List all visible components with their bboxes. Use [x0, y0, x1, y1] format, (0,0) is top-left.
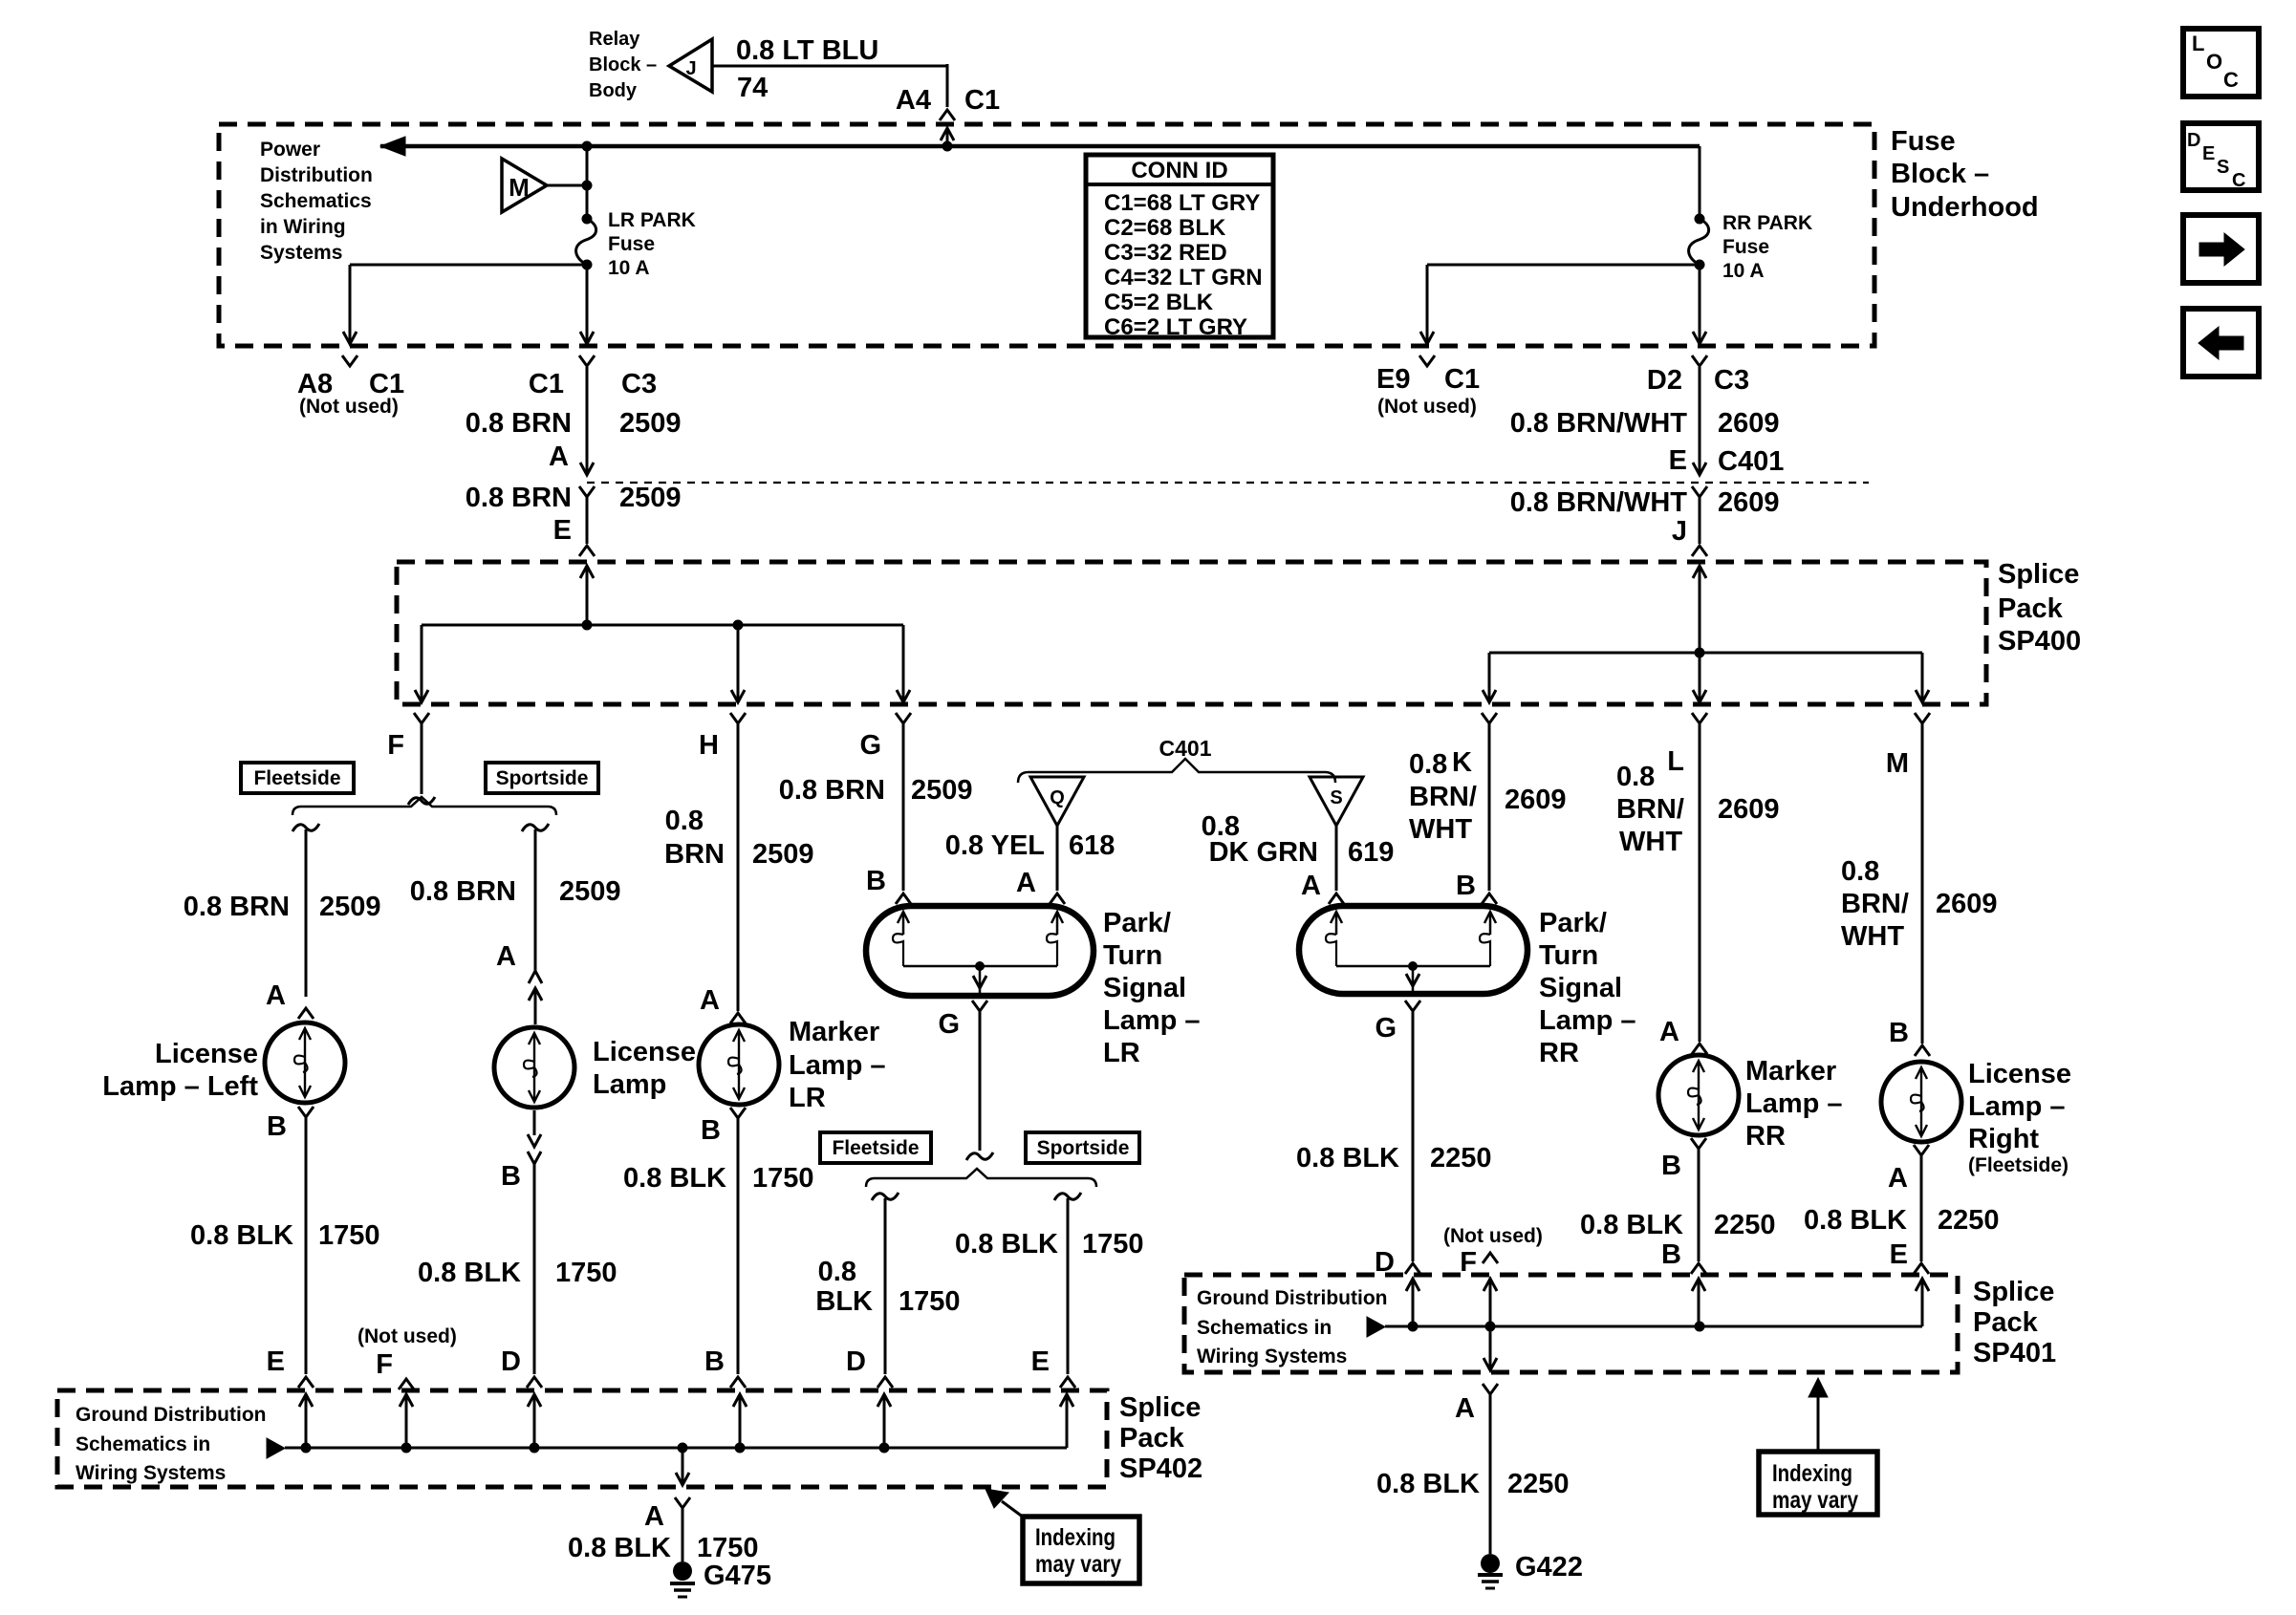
lamp: Park/Turn Signal Lamp - LR (oval): [866, 906, 1094, 996]
wire: branch to E9 (not used): [1427, 264, 1700, 267]
wire: RR PARK fuse output to D2/C3 exit: [1699, 265, 1701, 342]
svg-text:G: G: [1375, 1013, 1397, 1044]
svg-text:SP401: SP401: [1973, 1338, 2056, 1368]
Fuse Block - Underhood dashed box: [219, 124, 1874, 346]
svg-text:2250: 2250: [1507, 1469, 1570, 1499]
svg-text:RR PARK: RR PARK: [1722, 212, 1812, 234]
svg-text:C401: C401: [1159, 736, 1212, 761]
svg-text:0.8 LT BLU: 0.8 LT BLU: [736, 35, 878, 66]
svg-text:BLK: BLK: [815, 1286, 873, 1317]
svg-text:2609: 2609: [1505, 785, 1567, 815]
svg-text:618: 618: [1069, 830, 1115, 861]
svg-text:A: A: [1301, 871, 1321, 901]
svg-text:CONN ID: CONN ID: [1131, 158, 1227, 183]
svg-text:E: E: [267, 1346, 285, 1377]
connector A8 C1 (Not used): [342, 355, 357, 366]
svg-text:Lamp: Lamp: [593, 1069, 666, 1100]
svg-text:E: E: [1669, 445, 1687, 476]
lamp: License Lamp - Right (Fleetside): [1881, 1062, 1961, 1142]
connector E9 C1 (Not used): [1419, 355, 1435, 366]
svg-text:Fuse: Fuse: [608, 233, 655, 255]
svg-text:2509: 2509: [911, 775, 973, 806]
svg-text:may vary: may vary: [1772, 1487, 1858, 1514]
wire: 0.8 BRN/WHT 2609 from D2/C3 to C401: [1692, 355, 1707, 366]
svg-text:Fuse: Fuse: [1891, 126, 1956, 157]
wire: branch to A8 (not used): [350, 264, 587, 267]
wire: SP401 F riser (not used) and ground tap: [1489, 1281, 1492, 1326]
svg-text:0.8 BLK: 0.8 BLK: [568, 1533, 671, 1563]
svg-text:Relay: Relay: [589, 29, 640, 50]
svg-text:(Fleetside): (Fleetside): [1968, 1154, 2069, 1176]
wire: LR PARK fuse output to C1/C3 exit: [586, 265, 589, 342]
svg-text:H: H: [699, 730, 719, 761]
svg-text:G422: G422: [1515, 1552, 1583, 1583]
svg-text:Sportside: Sportside: [1037, 1137, 1130, 1159]
svg-text:Pack: Pack: [1119, 1423, 1185, 1453]
svg-text:0.8: 0.8: [1616, 762, 1655, 792]
svg-text:F: F: [1460, 1247, 1477, 1278]
wire: SP400 right internal bus: [1693, 566, 1706, 578]
svg-text:G: G: [938, 1009, 960, 1040]
svg-text:B: B: [1661, 1151, 1681, 1181]
svg-text:1750: 1750: [318, 1220, 380, 1251]
wire: Park/Turn LR pin G down: [972, 1001, 987, 1011]
wire: H branch 0.8 BRN 2509 to Marker Lamp LR: [737, 723, 740, 1011]
connector C401 pass-through (right): [1692, 486, 1707, 497]
connector G out of SP400: [896, 713, 911, 723]
svg-text:0.8 BLK: 0.8 BLK: [1580, 1210, 1683, 1240]
wire: Park/Turn RR pin G down to SP401 D: [1405, 1001, 1420, 1011]
svg-text:Park/: Park/: [1103, 908, 1171, 938]
connector J triangle: Relay Block - Body: [669, 39, 712, 92]
lamp: License Lamp - Left: [265, 1023, 345, 1103]
svg-text:C: C: [2232, 170, 2245, 191]
wire: sportside license lamp B to SP402 D: [533, 1164, 536, 1374]
svg-text:A: A: [549, 441, 569, 472]
svg-text:DK GRN: DK GRN: [1209, 837, 1318, 868]
connector C401 brace: [1018, 759, 1335, 783]
wire: SP401 internal ground bus: [1385, 1325, 1922, 1328]
legend box DESC: [2183, 123, 2259, 190]
svg-text:Q: Q: [1050, 787, 1065, 808]
svg-text:C1: C1: [1444, 364, 1480, 395]
wire: main feed bus inside fuse block: [380, 144, 1700, 149]
svg-text:RR: RR: [1745, 1121, 1786, 1152]
svg-text:A: A: [1659, 1017, 1679, 1047]
svg-text:B: B: [1456, 871, 1476, 901]
svg-text:RR: RR: [1539, 1038, 1579, 1068]
svg-text:A: A: [644, 1501, 664, 1532]
svg-text:Right: Right: [1968, 1124, 2039, 1154]
svg-text:D: D: [846, 1346, 866, 1377]
legend box LOC: [2183, 29, 2259, 97]
wire: feed to RR PARK fuse: [1699, 146, 1701, 219]
svg-text:J: J: [1672, 516, 1687, 547]
svg-text:(Not used): (Not used): [1443, 1225, 1543, 1247]
Indexing may vary note (SP401): [1759, 1452, 1877, 1515]
svg-text:Block –: Block –: [1891, 159, 1989, 189]
svg-text:2609: 2609: [1718, 487, 1780, 518]
svg-text:0.8: 0.8: [1409, 749, 1447, 780]
svg-text:Body: Body: [589, 80, 638, 101]
wire: relay block feed 0.8 LT BLU 74: [712, 65, 947, 68]
svg-text:0.8 BRN/WHT: 0.8 BRN/WHT: [1510, 487, 1688, 518]
wire: L branch 0.8 BRN/WHT 2609 to Marker Lamp RR: [1699, 723, 1701, 1042]
svg-text:L: L: [1667, 746, 1684, 777]
svg-text:Signal: Signal: [1539, 973, 1622, 1003]
svg-text:0.8 BLK: 0.8 BLK: [1376, 1469, 1480, 1499]
wire: 0.8 BRN 2509 from C1/C3 to C401: [579, 355, 595, 366]
svg-text:B: B: [501, 1161, 521, 1192]
svg-text:WHT: WHT: [1841, 921, 1904, 952]
connector F out of SP400: [414, 713, 429, 723]
svg-text:Lamp –: Lamp –: [1103, 1005, 1201, 1036]
ground G422: [1481, 1554, 1500, 1573]
connector A below SP402: [675, 1497, 690, 1508]
svg-text:Power: Power: [260, 139, 320, 161]
ground G475: [673, 1561, 692, 1581]
wire: 0.8 BLK 1750 to G475: [682, 1508, 684, 1561]
connector C401 pass-through (left): [579, 486, 595, 497]
wire: F branch down to fleetside/sportside split: [421, 723, 423, 794]
svg-text:Block –: Block –: [589, 54, 657, 75]
wire: K branch 0.8 BRN/WHT 2609 to Park/Turn RR pin B: [1488, 723, 1491, 891]
label box Sportside (right split): [486, 763, 598, 793]
svg-text:0.8 BRN: 0.8 BRN: [184, 892, 290, 922]
svg-text:E: E: [1890, 1239, 1908, 1270]
svg-text:B: B: [267, 1111, 287, 1142]
svg-text:Distribution: Distribution: [260, 164, 373, 186]
svg-text:0.8 BLK: 0.8 BLK: [190, 1220, 293, 1251]
svg-text:C2=68 BLK: C2=68 BLK: [1104, 215, 1226, 241]
svg-text:WHT: WHT: [1619, 827, 1682, 857]
svg-text:License: License: [593, 1037, 696, 1067]
svg-text:1750: 1750: [697, 1533, 759, 1563]
svg-text:C3: C3: [1714, 365, 1749, 396]
svg-text:0.8: 0.8: [665, 806, 704, 836]
wire: 0.8 YEL 618 from Q to Park/Turn LR pin A: [1056, 826, 1059, 891]
svg-text:A: A: [1016, 868, 1036, 898]
wire: SP402 ground tap down: [682, 1448, 684, 1483]
lamp: License Lamp (Sportside): [494, 1027, 574, 1108]
svg-text:L: L: [2192, 32, 2204, 55]
connector in-line below sportside license lamp: [533, 1110, 536, 1135]
wire: fleetside ground 0.8 BLK 1750 to SP402 D: [872, 1193, 899, 1200]
svg-text:C5=2 BLK: C5=2 BLK: [1104, 290, 1214, 315]
svg-text:10 A: 10 A: [608, 257, 650, 279]
Splice Pack SP401 dashed box (Ground Distribution): [1184, 1275, 1958, 1372]
svg-text:2250: 2250: [1714, 1210, 1776, 1240]
svg-text:Splice: Splice: [1973, 1277, 2054, 1307]
svg-text:E: E: [1031, 1346, 1050, 1377]
Splice Pack SP402 dashed box (Ground Distribution): [57, 1390, 1107, 1487]
svg-text:C1=68 LT GRY: C1=68 LT GRY: [1104, 190, 1260, 216]
svg-text:Underhood: Underhood: [1891, 192, 2039, 223]
wire: SP402 internal ground bus: [285, 1447, 1067, 1450]
svg-text:D: D: [2187, 130, 2200, 151]
svg-text:A4: A4: [896, 85, 931, 116]
wire: Marker Lamp LR B to SP402 B: [730, 1108, 746, 1118]
svg-text:Pack: Pack: [1973, 1307, 2039, 1338]
svg-text:C4=32 LT GRN: C4=32 LT GRN: [1104, 265, 1263, 291]
wire: License Lamp Right A to SP401 E: [1914, 1145, 1929, 1155]
svg-text:S: S: [2217, 157, 2229, 178]
svg-text:0.8 YEL: 0.8 YEL: [945, 830, 1045, 861]
svg-text:0.8 BLK: 0.8 BLK: [1804, 1205, 1907, 1236]
svg-text:License: License: [1968, 1059, 2071, 1089]
svg-text:0.8 BLK: 0.8 BLK: [1296, 1143, 1399, 1174]
svg-text:Fuse: Fuse: [1722, 236, 1769, 258]
svg-text:C3: C3: [621, 369, 657, 399]
svg-text:G: G: [859, 730, 881, 761]
svg-text:SP402: SP402: [1119, 1453, 1202, 1484]
svg-text:0.8: 0.8: [818, 1257, 856, 1287]
svg-text:E: E: [553, 515, 572, 546]
svg-text:M: M: [1886, 748, 1909, 779]
svg-text:Splice: Splice: [1119, 1392, 1201, 1423]
svg-text:BRN: BRN: [664, 839, 725, 870]
wire: fleetside 0.8 BRN 2509 to License Lamp - Left: [292, 824, 319, 831]
svg-text:0.8 BRN/WHT: 0.8 BRN/WHT: [1510, 408, 1688, 439]
svg-text:Sportside: Sportside: [496, 767, 589, 789]
wire: sportside 0.8 BRN 2509 to License Lamp: [522, 824, 549, 831]
connector M out of SP400: [1915, 713, 1930, 723]
wire: 0.8 BLK 2250 to G422: [1489, 1394, 1492, 1554]
svg-text:Lamp –: Lamp –: [1968, 1091, 2066, 1122]
svg-text:Ground Distribution: Ground Distribution: [76, 1404, 266, 1426]
connector M triangle (motor/feed symbol): [502, 159, 547, 212]
svg-text:F: F: [376, 1349, 393, 1380]
svg-text:0.8 BRN: 0.8 BRN: [466, 408, 572, 439]
connector H out of SP400: [730, 713, 746, 723]
svg-text:O: O: [2206, 50, 2222, 74]
svg-text:74: 74: [737, 73, 768, 103]
svg-text:2250: 2250: [1938, 1205, 2000, 1236]
svg-text:1750: 1750: [555, 1258, 617, 1288]
svg-text:(Not used): (Not used): [1377, 396, 1477, 418]
svg-text:C3=32 RED: C3=32 RED: [1104, 240, 1227, 266]
wire: M triangle to LR PARK fuse: [547, 184, 587, 187]
svg-text:2509: 2509: [619, 483, 682, 513]
svg-text:1750: 1750: [752, 1163, 814, 1194]
wire: License Lamp Left B to SP402 E: [298, 1107, 314, 1117]
svg-text:B: B: [704, 1346, 725, 1377]
svg-text:E: E: [2202, 143, 2215, 164]
svg-text:Fleetside: Fleetside: [253, 767, 340, 789]
svg-text:Lamp – Left: Lamp – Left: [102, 1071, 258, 1102]
svg-text:M: M: [509, 173, 530, 202]
svg-text:LR: LR: [789, 1083, 826, 1113]
svg-text:LR PARK: LR PARK: [608, 209, 696, 231]
svg-text:G475: G475: [704, 1561, 771, 1591]
node: junction at LR PARK branch: [582, 141, 593, 152]
svg-text:10 A: 10 A: [1722, 260, 1765, 282]
lamp: Marker Lamp - LR: [699, 1024, 779, 1105]
svg-text:Systems: Systems: [260, 242, 342, 264]
connector L out of SP400: [1692, 713, 1707, 723]
svg-text:D2: D2: [1647, 365, 1682, 396]
CONN ID table: [1086, 155, 1273, 337]
svg-text:A: A: [266, 980, 286, 1011]
svg-text:BRN/: BRN/: [1841, 889, 1909, 919]
svg-text:Park/: Park/: [1539, 908, 1607, 938]
svg-text:Marker: Marker: [1745, 1056, 1836, 1087]
svg-text:Lamp –: Lamp –: [1539, 1005, 1636, 1036]
lamp: Marker Lamp - RR: [1658, 1055, 1739, 1135]
svg-text:Wiring Systems: Wiring Systems: [1197, 1346, 1347, 1367]
svg-text:0.8 BLK: 0.8 BLK: [955, 1229, 1058, 1260]
svg-text:Fleetside: Fleetside: [832, 1137, 919, 1159]
svg-text:B: B: [701, 1115, 721, 1146]
svg-text:SP400: SP400: [1998, 626, 2081, 657]
connector C401 in-line harness connector (dashed line): [587, 482, 1869, 484]
svg-text:C: C: [2223, 68, 2239, 92]
wire: SP400 left internal bus: [580, 566, 594, 578]
svg-text:0.8: 0.8: [1841, 856, 1879, 887]
svg-text:B: B: [1889, 1018, 1909, 1048]
svg-text:(Not used): (Not used): [357, 1325, 457, 1347]
svg-text:Pack: Pack: [1998, 593, 2064, 624]
Splice Pack SP400 dashed box: [397, 562, 1986, 704]
connector K out of SP400: [1482, 713, 1497, 723]
svg-text:Lamp –: Lamp –: [1745, 1088, 1843, 1119]
svg-text:A: A: [700, 985, 720, 1016]
svg-text:A: A: [1455, 1393, 1475, 1424]
svg-text:Schematics in: Schematics in: [1197, 1317, 1332, 1339]
wire: Marker Lamp RR B to SP401 B: [1691, 1138, 1706, 1149]
svg-text:B: B: [1661, 1239, 1681, 1270]
brace: harness split under F: [292, 797, 556, 815]
fuse: RR PARK Fuse 10 A: [1695, 214, 1705, 225]
svg-text:2609: 2609: [1718, 794, 1780, 825]
svg-text:Turn: Turn: [1539, 940, 1598, 971]
svg-text:Turn: Turn: [1103, 940, 1162, 971]
node: junction at A4 feed: [942, 141, 953, 152]
svg-text:Schematics: Schematics: [260, 190, 372, 212]
svg-text:2509: 2509: [319, 892, 381, 922]
connector F at SP402 (not used): [399, 1379, 414, 1389]
wire: M branch 0.8 BRN/WHT 2609 to License Lamp - Right: [1921, 723, 1924, 1044]
connector in-line (sportside license feed): [529, 971, 542, 983]
svg-text:in Wiring: in Wiring: [260, 216, 346, 238]
svg-text:BRN/: BRN/: [1616, 794, 1684, 825]
label box Fleetside (left split): [241, 763, 354, 793]
svg-text:0.8 BRN: 0.8 BRN: [779, 775, 885, 806]
svg-text:0.8 BRN: 0.8 BRN: [410, 876, 516, 907]
label box Sportside (ground split): [1026, 1132, 1139, 1163]
wire: 0.8 DK GRN 619 from S to Park/Turn RR pin A: [1335, 826, 1338, 891]
svg-text:B: B: [866, 866, 886, 896]
svg-text:0.8 BLK: 0.8 BLK: [418, 1258, 521, 1288]
label box Fleetside (ground split): [820, 1132, 931, 1163]
svg-text:Lamp –: Lamp –: [789, 1050, 886, 1081]
svg-text:A: A: [1888, 1163, 1908, 1194]
svg-text:J: J: [685, 58, 696, 79]
svg-text:Signal: Signal: [1103, 973, 1186, 1003]
svg-text:F: F: [387, 730, 404, 761]
svg-text:C1: C1: [529, 369, 564, 399]
svg-text:Marker: Marker: [789, 1017, 879, 1047]
legend box left arrow: [2183, 309, 2259, 377]
svg-text:2509: 2509: [752, 839, 814, 870]
svg-text:2609: 2609: [1718, 408, 1780, 439]
connector Q triangle (C401 pin): [1030, 777, 1084, 826]
svg-text:Ground Distribution: Ground Distribution: [1197, 1287, 1387, 1309]
svg-text:WHT: WHT: [1409, 814, 1472, 845]
svg-text:0.8 BLK: 0.8 BLK: [623, 1163, 726, 1194]
svg-text:C1: C1: [964, 85, 1000, 116]
legend box right arrow: [2183, 215, 2259, 283]
svg-text:Wiring Systems: Wiring Systems: [76, 1462, 226, 1484]
svg-text:0.8 BRN: 0.8 BRN: [466, 483, 572, 513]
svg-text:LR: LR: [1103, 1038, 1140, 1068]
svg-text:D: D: [501, 1346, 521, 1377]
svg-text:Schematics in: Schematics in: [76, 1433, 210, 1455]
svg-text:Indexing: Indexing: [1772, 1460, 1852, 1487]
lamp: Park/Turn Signal Lamp - RR (oval): [1299, 906, 1527, 994]
Indexing may vary note (SP402): [1023, 1517, 1139, 1583]
svg-text:1750: 1750: [1082, 1229, 1144, 1260]
svg-text:2509: 2509: [619, 408, 682, 439]
svg-text:2250: 2250: [1430, 1143, 1492, 1174]
svg-text:2509: 2509: [559, 876, 621, 907]
svg-text:K: K: [1452, 747, 1472, 778]
wire: sportside ground 0.8 BLK 1750 to SP402 E: [1054, 1193, 1081, 1200]
wire: G branch 0.8 BRN 2509 to Park/Turn LR pin B: [902, 723, 905, 891]
svg-text:C401: C401: [1718, 446, 1784, 477]
brace: harness split under Park/Turn LR G: [866, 1169, 1096, 1187]
svg-text:C6=2 LT GRY: C6=2 LT GRY: [1104, 314, 1247, 340]
svg-text:1750: 1750: [899, 1286, 961, 1317]
svg-text:may vary: may vary: [1035, 1551, 1121, 1578]
svg-text:(Not used): (Not used): [299, 396, 399, 418]
svg-text:A: A: [496, 941, 516, 972]
svg-text:Indexing: Indexing: [1035, 1524, 1116, 1551]
svg-text:619: 619: [1348, 837, 1394, 868]
svg-text:2609: 2609: [1936, 889, 1998, 919]
svg-text:S: S: [1330, 787, 1342, 808]
connector A below SP401: [1483, 1384, 1498, 1394]
svg-text:E9: E9: [1376, 364, 1410, 395]
connector S triangle (C401 pin): [1310, 777, 1363, 826]
svg-text:License: License: [155, 1039, 258, 1069]
svg-text:Splice: Splice: [1998, 559, 2079, 590]
svg-text:BRN/: BRN/: [1409, 782, 1477, 812]
fuse: LR PARK Fuse 10 A: [582, 214, 593, 225]
